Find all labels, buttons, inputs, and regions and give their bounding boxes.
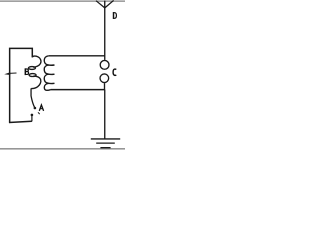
wire: left loop (left vertical, top horizontal, primary lead) (10, 48, 33, 122)
terminal circle C (upper) (100, 60, 109, 69)
bottom rule (0, 148, 125, 150)
transformer B primary winding (28, 56, 41, 88)
ground (91, 139, 120, 148)
antenna D (96, 0, 114, 8)
top rule (0, 0, 125, 2)
wire: bottom-left horizontal (9, 121, 32, 122)
switch A blade (31, 88, 35, 108)
label A (39, 105, 43, 111)
switch A lower contact stub (31, 116, 33, 122)
tap mark on left vertical (9, 72, 17, 74)
switch A blade tip dot (34, 107, 37, 110)
speck below label A (38, 112, 40, 114)
label B (25, 68, 28, 75)
label D (114, 12, 117, 19)
wire: top horizontal (coil to bus) (49, 55, 105, 57)
wire: right bus lower (104, 90, 106, 139)
switch A lower contact dot (31, 114, 34, 117)
terminal circle C (lower) (100, 74, 109, 83)
label C (113, 69, 116, 75)
wire: antenna lead / right bus upper (104, 1, 106, 60)
wire: stub below lower terminal (104, 83, 106, 89)
wire: bottom horizontal (coil to bus) (51, 89, 105, 91)
transformer B secondary winding (44, 56, 54, 91)
